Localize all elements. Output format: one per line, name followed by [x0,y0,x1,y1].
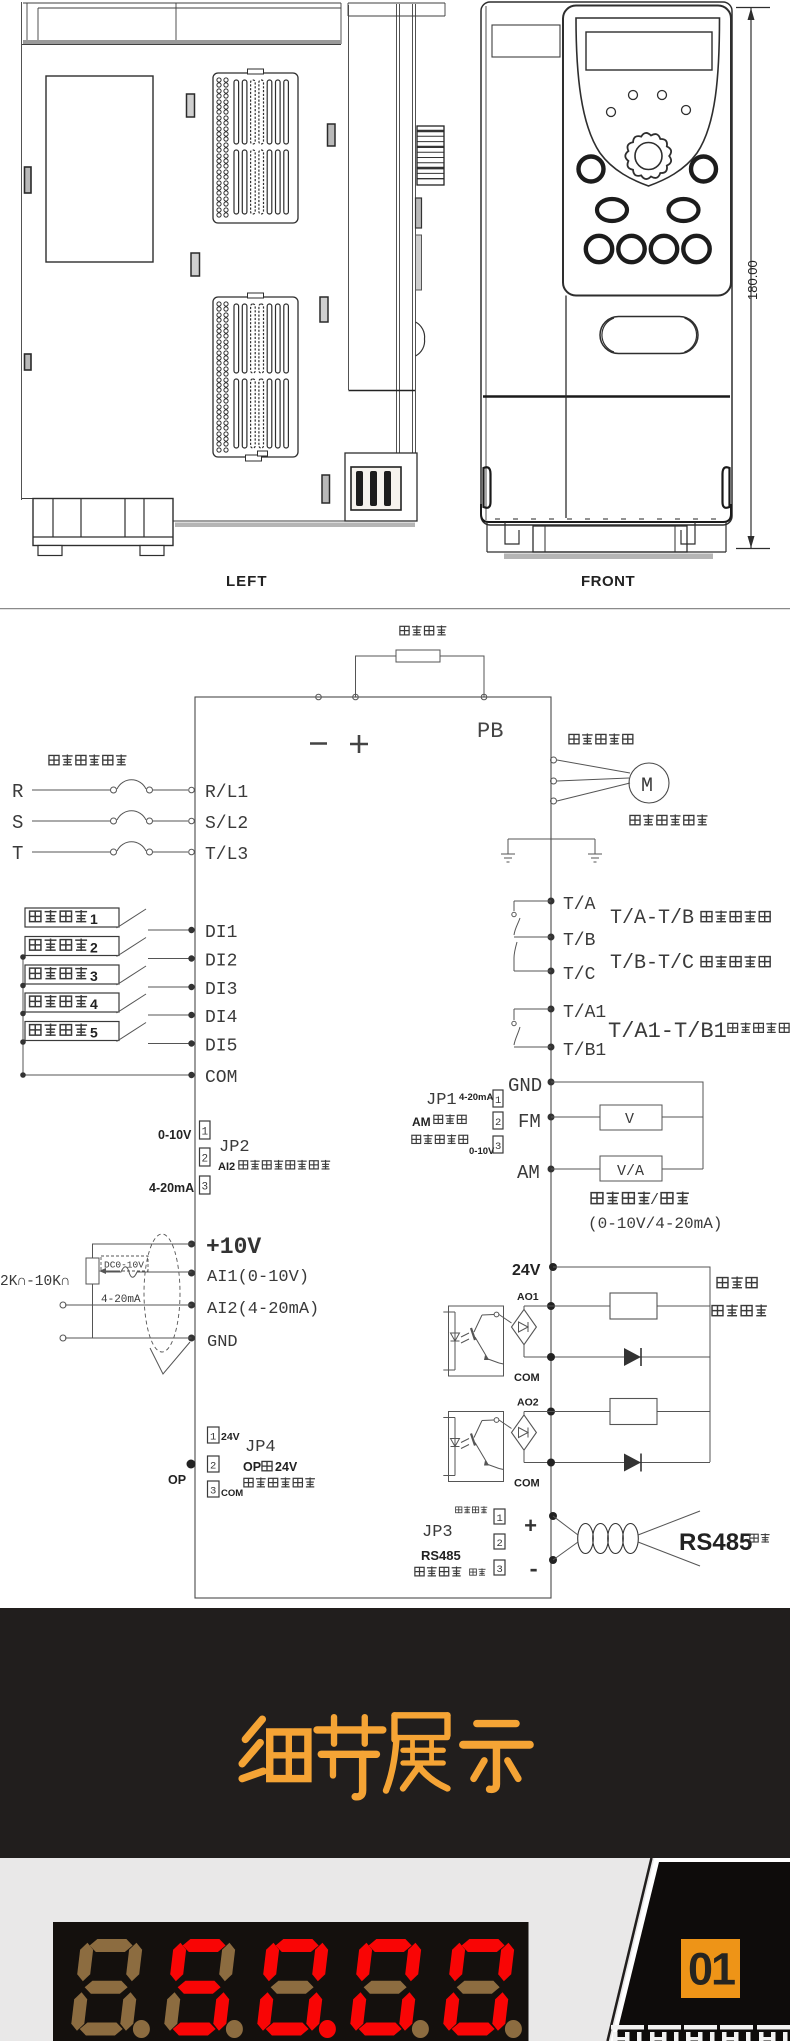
svg-text:T/C: T/C [563,965,596,985]
terminal +10V [188,1234,261,1260]
rectifier diamond AO2 [499,1412,536,1463]
meter V/A [600,1156,662,1181]
display digit 5 value 0 [442,1939,516,2036]
terminal T/C [548,965,596,985]
label RS485 interface [679,1529,770,1556]
svg-text:(0-10V/4-20mA): (0-10V/4-20mA) [588,1215,722,1233]
left view: side slot B [25,354,32,370]
twisted pair coil [553,1511,700,1566]
front view: vertical seam [565,296,567,519]
digital input 4: label box, switch, wire, terminal DI4 [25,993,237,1028]
svg-text:DI5: DI5 [205,1037,237,1057]
svg-text:JP2: JP2 [219,1138,250,1157]
banner char shi [463,1724,530,1790]
label: open collector output [712,1277,767,1317]
relay contacts T/A T/B T/C [512,901,551,971]
load resistor for AO1 [524,1293,710,1319]
svg-text:T/A1-T/B1: T/A1-T/B1 [608,1019,727,1044]
common bus for digital inputs [20,954,26,1075]
terminal AO1 [517,1291,555,1310]
seven segment display panel [53,1922,529,2041]
load resistor for AO2 [524,1399,710,1425]
jumper JP4 [208,1427,276,1499]
front view: lcd display [586,32,712,70]
node PB [481,694,487,700]
svg-text:DI2: DI2 [205,952,237,972]
terminal T/A [548,895,596,915]
terminal T/B1 [548,1041,607,1061]
svg-text:OP: OP [168,1473,186,1487]
terminal FM [518,1111,555,1133]
svg-text:2: 2 [210,1461,216,1473]
svg-text:AM: AM [412,1115,431,1129]
left view: small slot bottom [322,475,330,503]
svg-text:R: R [12,781,23,803]
terminal AI2 [188,1300,319,1319]
svg-text:COM: COM [514,1478,540,1490]
potentiometer 2K-10K [86,1258,118,1284]
meter loop wires [551,1082,703,1169]
voltmeter V [600,1105,662,1130]
section separator line [0,608,790,610]
svg-text:LEFT: LEFT [226,573,268,590]
input phase T wire and breaker [12,842,194,865]
display digit 2 value 5 [163,1939,237,2036]
svg-text:S/L2: S/L2 [205,814,248,834]
svg-text:24V: 24V [275,1460,298,1474]
label AM signal jumper select [412,1114,468,1144]
svg-text:GND: GND [508,1075,542,1097]
left view: top right cap [348,3,445,16]
svg-text:T/A1: T/A1 [563,1003,606,1023]
left view: din rail bracket [33,499,173,556]
node on dc bus 2 [353,694,359,700]
jumper JP2 [149,1121,250,1195]
label DC0-10V dashed box [101,1256,148,1271]
svg-text:24V: 24V [221,1431,240,1443]
front view: dimension line 180.00 [736,8,770,549]
jumper JP3 [415,1506,505,1576]
svg-text:AO2: AO2 [517,1397,539,1409]
front view: display bezel V shape [576,18,720,186]
terminal GND analog [188,1333,238,1352]
freewheel diode for AO1 [524,1348,710,1366]
svg-text:2: 2 [495,1117,501,1129]
svg-text:2K∩-10K∩: 2K∩-10K∩ [0,1274,70,1290]
svg-text:/: / [650,1192,659,1209]
svg-text:T/B: T/B [563,931,596,951]
svg-text:2: 2 [497,1538,503,1550]
left view: knob side profile [417,126,444,185]
left view: small slot mid [191,253,200,276]
svg-text:AI2(4-20mA): AI2(4-20mA) [207,1300,319,1319]
display digit 4 value 0 [349,1939,423,2036]
svg-text:JP3: JP3 [422,1523,453,1542]
svg-text:180.00: 180.00 [745,260,760,300]
svg-text:0-10V: 0-10V [469,1146,495,1157]
node on dc bus 1 [316,694,322,700]
svg-text:4: 4 [90,996,98,1012]
label jumper terminal connection [244,1477,315,1487]
svg-text:FRONT: FRONT [581,573,635,590]
left view: device body outline [22,2,342,500]
shield drain to GND [150,1342,190,1374]
jumper JP1 [426,1090,503,1157]
front view: side clips [484,467,491,508]
left view: small slot right upper [328,124,336,146]
wire GND with pot return [60,1284,192,1341]
svg-text:PB: PB [477,719,503,744]
label DC voltage/current [591,1192,689,1209]
front view: buttons row3 [586,236,612,262]
front view: mid divider [483,395,730,398]
svg-text:AI2: AI2 [218,1161,235,1173]
wire AI1 with twisted pair squiggle [104,1267,192,1278]
wire COM [20,1068,237,1088]
wire +10V to potentiometer [93,1244,192,1258]
svg-text:3: 3 [210,1486,216,1498]
terminal label minus [310,742,327,745]
terminal OP [168,1460,196,1488]
svg-text:DC0-10V: DC0-10V [104,1260,144,1271]
svg-text:AI1(0-10V): AI1(0-10V) [207,1268,309,1287]
wire: braking resistor loop [356,656,485,697]
svg-text:AM: AM [517,1162,540,1184]
front view: led indicators [607,108,616,117]
terminal label plus [350,735,368,753]
terminal 24V [512,1262,557,1279]
svg-text:COM: COM [205,1068,237,1088]
svg-text:T: T [12,843,23,865]
front view: top-left small rect [492,25,560,57]
display digit 1 value 8 [70,1939,144,2036]
svg-text:DI4: DI4 [205,1008,237,1028]
svg-text:1: 1 [90,911,98,927]
svg-text:3: 3 [90,968,98,984]
optocoupler AO2 [443,1412,503,1482]
svg-text:24V: 24V [512,1262,541,1279]
svg-text:M: M [641,775,653,798]
optocoupler AO1 [443,1306,503,1376]
svg-text:COM: COM [514,1372,540,1384]
svg-text:1: 1 [497,1513,503,1525]
left view: bottom divider [349,390,416,392]
terminal GND right [508,1075,555,1097]
left view: small slot right mid [320,297,328,322]
svg-text:+10V: +10V [206,1234,261,1260]
left view: flange bottom bar [23,40,341,44]
svg-text:T/B1: T/B1 [563,1041,606,1061]
label: three-phase input power [49,754,127,765]
input phase R wire and breaker [12,780,194,803]
svg-text:V/A: V/A [617,1163,644,1180]
svg-text:JP1: JP1 [426,1091,457,1110]
terminal AI1 [188,1268,309,1287]
svg-text:T/L3: T/L3 [205,845,248,865]
label T/A1-T/B1 normally open [608,1019,789,1044]
svg-text:DI1: DI1 [205,923,237,943]
digital input 1: label box, switch, wire, terminal DI1 [25,908,237,943]
banner char zhan [386,1715,447,1790]
decor diagonal thin line [608,1858,652,2041]
svg-text:COM: COM [221,1488,243,1499]
relay contact T/A1 T/B1 [512,1009,551,1047]
svg-text:4-20mA: 4-20mA [459,1092,493,1103]
front view: pill handle [600,317,698,354]
label T/A-T/B normally open [610,907,770,930]
svg-text:DI3: DI3 [205,980,237,1000]
banner char jie [317,1717,383,1797]
left view: bottom right terminal block [345,453,417,521]
left view: small slot near top [187,94,195,117]
motor M three phase [551,757,670,804]
label: three phase async motor [630,814,708,825]
terminal T/A1 [548,1003,607,1023]
label OP with 24V jumper connect [243,1460,298,1474]
svg-text:3: 3 [495,1141,501,1153]
svg-text:FM: FM [518,1111,541,1133]
terminal T/B [548,931,596,951]
digital input 3: label box, switch, wire, terminal DI3 [25,965,237,1000]
input phase S wire and breaker [12,811,194,834]
svg-text:1: 1 [202,1127,209,1139]
rectifier diamond AO1 [499,1306,536,1357]
svg-text:1: 1 [210,1432,216,1444]
front view: buttons row2 ovals [597,199,627,221]
terminal AO2 [517,1397,555,1416]
front view: bottom base [481,504,731,559]
svg-text:S: S [12,812,23,834]
partial heading: smart display (cut) [611,2025,790,2041]
svg-text:+: + [524,1515,537,1540]
badge 01 [681,1939,740,1998]
front view: buttons row1 [579,157,604,182]
left view: upper vent grille [213,69,298,223]
svg-text:4-20mA: 4-20mA [149,1181,194,1195]
terminal COM under AO1 [514,1353,555,1384]
svg-text:RS485: RS485 [421,1548,461,1563]
left view: bottom edge [22,499,415,522]
svg-text:4-20mA: 4-20mA [101,1294,141,1306]
svg-text:-: - [527,1558,540,1583]
svg-text:2: 2 [202,1154,209,1166]
left view: heatsink plate [46,76,153,262]
right dark panel with white edge [611,1858,790,2041]
svg-text:2: 2 [90,940,98,956]
svg-text:1: 1 [495,1095,501,1107]
cable shield ellipse [144,1234,180,1352]
wire 24V to collector bus [553,1267,710,1462]
resistor: braking resistor [396,650,440,662]
svg-text:JP4: JP4 [245,1438,276,1457]
svg-text:V: V [625,1111,634,1128]
svg-text:R/L1: R/L1 [205,783,248,803]
svg-text:RS485: RS485 [679,1529,752,1556]
left view: side bump [416,322,425,356]
svg-text:5: 5 [90,1025,98,1041]
left view: bottom gray strip [175,523,415,528]
left view: side slot A [25,167,32,193]
svg-text:GND: GND [207,1333,238,1352]
left view: front profile lines [349,4,416,521]
left view: lower vent grille [213,293,298,461]
svg-text:01: 01 [688,1944,735,1995]
svg-text:0-10V: 0-10V [158,1128,192,1142]
svg-text:T/B-T/C: T/B-T/C [610,952,694,975]
inverter main box [195,697,551,1598]
front view: body [481,2,732,525]
label: AI2 signal terminal select [218,1160,330,1173]
freewheel diode for AO2 [524,1454,710,1472]
terminal COM under AO2 [514,1459,555,1490]
digital input 2: label box, switch, wire, terminal DI2 [25,937,237,972]
label: braking resistor (zhidong dianzu) [400,625,446,635]
terminal RS485 plus [524,1512,557,1540]
label: three phase output [569,733,633,744]
svg-text:T/A-T/B: T/A-T/B [610,907,694,930]
banner char xi (detail) [242,1719,308,1778]
left view: side buttons profile [416,198,422,228]
terminal AM [517,1162,555,1184]
svg-text:T/A: T/A [563,895,596,915]
ground symbols under output [501,839,602,862]
label T/B-T/C normally closed [610,952,770,975]
svg-text:AO1: AO1 [517,1291,539,1303]
svg-text:OP: OP [243,1460,261,1474]
svg-text:3: 3 [497,1564,503,1576]
wire AI2 [60,1302,192,1308]
display digit 3 value 0 [256,1939,330,2036]
front view: jog knob [625,133,671,179]
svg-text:3: 3 [202,1182,209,1194]
front view: keypad panel [563,6,731,296]
terminal RS485 minus [527,1556,557,1583]
digital input 5: label box, switch, wire, terminal DI5 [25,1022,237,1057]
